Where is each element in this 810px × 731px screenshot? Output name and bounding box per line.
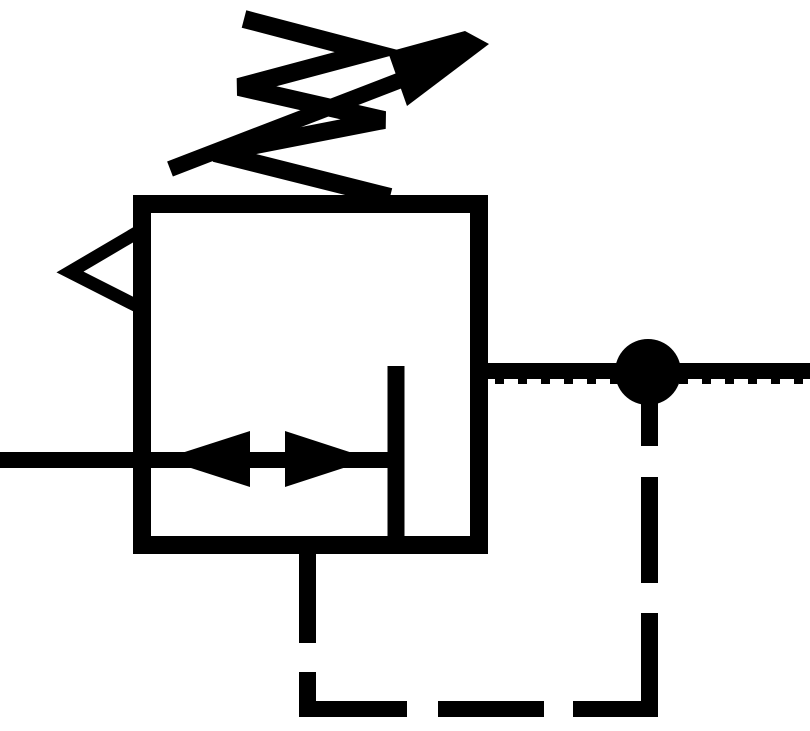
internal sensing vertical line bbox=[388, 366, 405, 548]
left relief spring chevron bbox=[70, 232, 138, 306]
scan serration under outlet line bbox=[495, 378, 810, 384]
flow arrowhead right bbox=[285, 431, 371, 487]
inlet flow line (left port wire) bbox=[0, 452, 398, 468]
adjustment arrowhead bbox=[388, 31, 489, 106]
pilot line vertical dash 1 bbox=[641, 400, 658, 446]
vent stub from box bottom bbox=[299, 545, 316, 643]
junction node (filled circle) bbox=[615, 339, 681, 405]
pilot line bottom-left corner dash bbox=[299, 672, 407, 717]
pilot line vertical dash 2 bbox=[641, 477, 658, 583]
outlet line (right port wire) bbox=[479, 363, 810, 379]
pilot line vertical dash 3 with corner bbox=[573, 613, 658, 717]
adjustment arrow shaft bbox=[170, 63, 445, 169]
pilot line bottom dash middle bbox=[438, 701, 544, 717]
flow arrowhead left bbox=[163, 431, 250, 487]
adjustment spring zigzag bbox=[215, 19, 390, 197]
valve body box bbox=[142, 204, 479, 545]
